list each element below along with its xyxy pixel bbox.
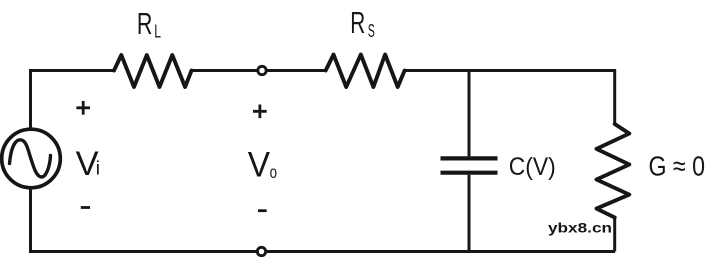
wire RL to node Vo+ bbox=[192, 69, 326, 72]
sine wave inside source bbox=[10, 140, 51, 177]
capacitor C(V) plates bbox=[441, 158, 498, 172]
svg-text:S: S bbox=[368, 21, 375, 41]
svg-text:V: V bbox=[248, 146, 271, 185]
wire top-left segment from source top to RL bbox=[31, 71, 115, 129]
svg-text:G ≈ 0: G ≈ 0 bbox=[649, 151, 706, 182]
node terminal top (open circle) bbox=[258, 66, 266, 74]
resistor RS zigzag bbox=[326, 55, 405, 88]
svg-text:R: R bbox=[137, 7, 153, 41]
svg-text:L: L bbox=[154, 22, 161, 42]
wire right branch bottom bbox=[613, 218, 616, 252]
resistor G vertical zigzag bbox=[597, 124, 630, 218]
node terminal bottom (open circle) bbox=[257, 247, 265, 255]
wire capacitor branch bottom bbox=[468, 175, 471, 253]
minus sign Vo bbox=[258, 209, 267, 212]
AC voltage source circle bbox=[2, 129, 61, 188]
wire capacitor branch top bbox=[468, 69, 471, 156]
resistor RL zigzag bbox=[114, 55, 192, 87]
plus sign Vi bbox=[76, 101, 90, 115]
svg-text:R: R bbox=[350, 6, 365, 40]
svg-text:C(V): C(V) bbox=[509, 153, 556, 181]
svg-text:o: o bbox=[270, 162, 277, 182]
minus sign Vi bbox=[81, 206, 90, 209]
wire RS to top-right corner bbox=[405, 71, 615, 125]
wire source bottom to bottom-left corner bbox=[31, 189, 616, 252]
plus sign Vo bbox=[253, 105, 267, 119]
svg-text:i: i bbox=[96, 159, 100, 180]
svg-text:ybx8.cn: ybx8.cn bbox=[548, 220, 612, 236]
